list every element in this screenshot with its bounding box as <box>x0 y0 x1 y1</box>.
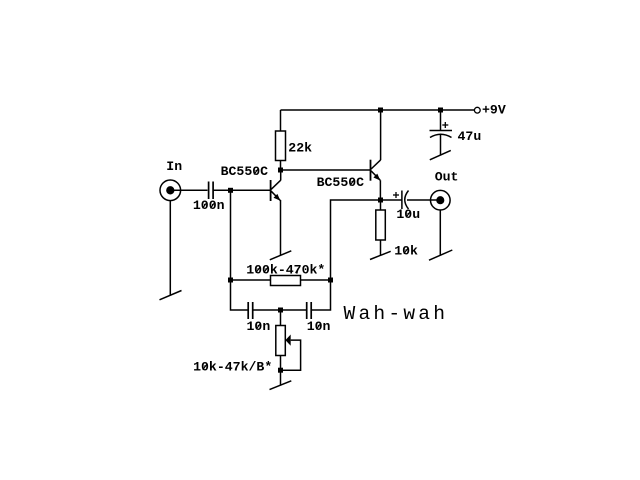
node F junction <box>228 278 233 283</box>
wire C5 to ground <box>440 135 442 156</box>
ground Q1 emitter <box>270 251 292 260</box>
capacitor C3 10n right <box>307 302 312 319</box>
connector J1 In jack <box>160 180 181 201</box>
capacitor C5 47u electrolytic <box>430 122 453 138</box>
ground In <box>160 291 182 300</box>
ground pot <box>270 381 292 390</box>
svg-text:In: In <box>166 159 182 174</box>
wire node H down to pot <box>280 310 282 326</box>
wire node G up to node E <box>331 200 381 280</box>
wire R2 to node G <box>301 279 331 281</box>
node C junction <box>378 108 383 113</box>
svg-text:BC550C: BC550C <box>221 164 269 179</box>
wire R3 to ground <box>380 240 382 256</box>
potentiometer P1 10k-47k/B <box>276 326 291 356</box>
node H junction <box>278 308 283 313</box>
svg-text:+9V: +9V <box>482 103 506 118</box>
wire pot bottom to ground <box>280 356 282 386</box>
svg-text:Out: Out <box>435 169 459 184</box>
ground Out <box>429 250 452 260</box>
wire node E to C4 <box>381 199 402 201</box>
wire 22k top to rail <box>280 110 282 131</box>
ground R3 <box>370 251 391 259</box>
transistor Q2 BC550C <box>371 160 381 181</box>
wire node F to R2 <box>231 279 271 281</box>
node I junction <box>278 368 283 373</box>
transistor Q1 BC550C <box>271 170 281 201</box>
wire node D to C5 <box>440 110 442 131</box>
capacitor C4 10u electrolytic <box>393 191 409 210</box>
resistor R3 10k <box>376 210 386 240</box>
wire Q2 collector to rail <box>380 110 382 160</box>
capacitor C2 10n left <box>248 302 253 319</box>
wire node H to C3 <box>281 309 307 311</box>
resistor R2 100k-470k <box>271 276 301 286</box>
terminal +9V <box>474 107 480 113</box>
svg-text:100n: 100n <box>193 198 225 213</box>
wire node A to Q1 base <box>231 189 271 191</box>
wire node F down to C2 <box>231 280 249 310</box>
wire Q2 emitter to node E <box>379 180 381 200</box>
wire C4 to Out jack <box>407 199 439 201</box>
connector J2 Out jack <box>431 190 451 210</box>
svg-text:Wah-wah: Wah-wah <box>344 303 449 325</box>
svg-text:22k: 22k <box>288 141 312 156</box>
wire node B to Q2 base <box>281 169 371 171</box>
node D junction <box>438 108 443 113</box>
wire 22k bottom lead <box>280 161 282 171</box>
wire node A down to node F <box>230 190 232 280</box>
svg-text:BC550C: BC550C <box>317 175 365 190</box>
wire node E to R3 <box>380 200 382 210</box>
node G junction <box>328 278 333 283</box>
capacitor C1 100n <box>209 182 214 200</box>
slashed-zero strokes for pixel-font look <box>203 168 411 369</box>
node A junction <box>228 188 233 193</box>
wire In jack to C1 <box>172 189 208 191</box>
resistor R1 22k <box>276 131 286 161</box>
wire +9V rail <box>281 109 475 111</box>
wire Q1 emitter to ground <box>280 200 282 255</box>
ground C5 <box>430 150 451 159</box>
svg-text:47u: 47u <box>458 129 482 144</box>
wire Out jack ground lead <box>439 210 441 255</box>
node B junction <box>278 168 283 173</box>
wire C1 to node A <box>213 189 230 191</box>
wire C3 to node G <box>311 280 330 310</box>
wire In jack ground lead <box>169 201 171 295</box>
wire wiper to node I <box>281 340 301 370</box>
node E junction <box>378 198 383 203</box>
wire C2 to node H <box>253 309 281 311</box>
